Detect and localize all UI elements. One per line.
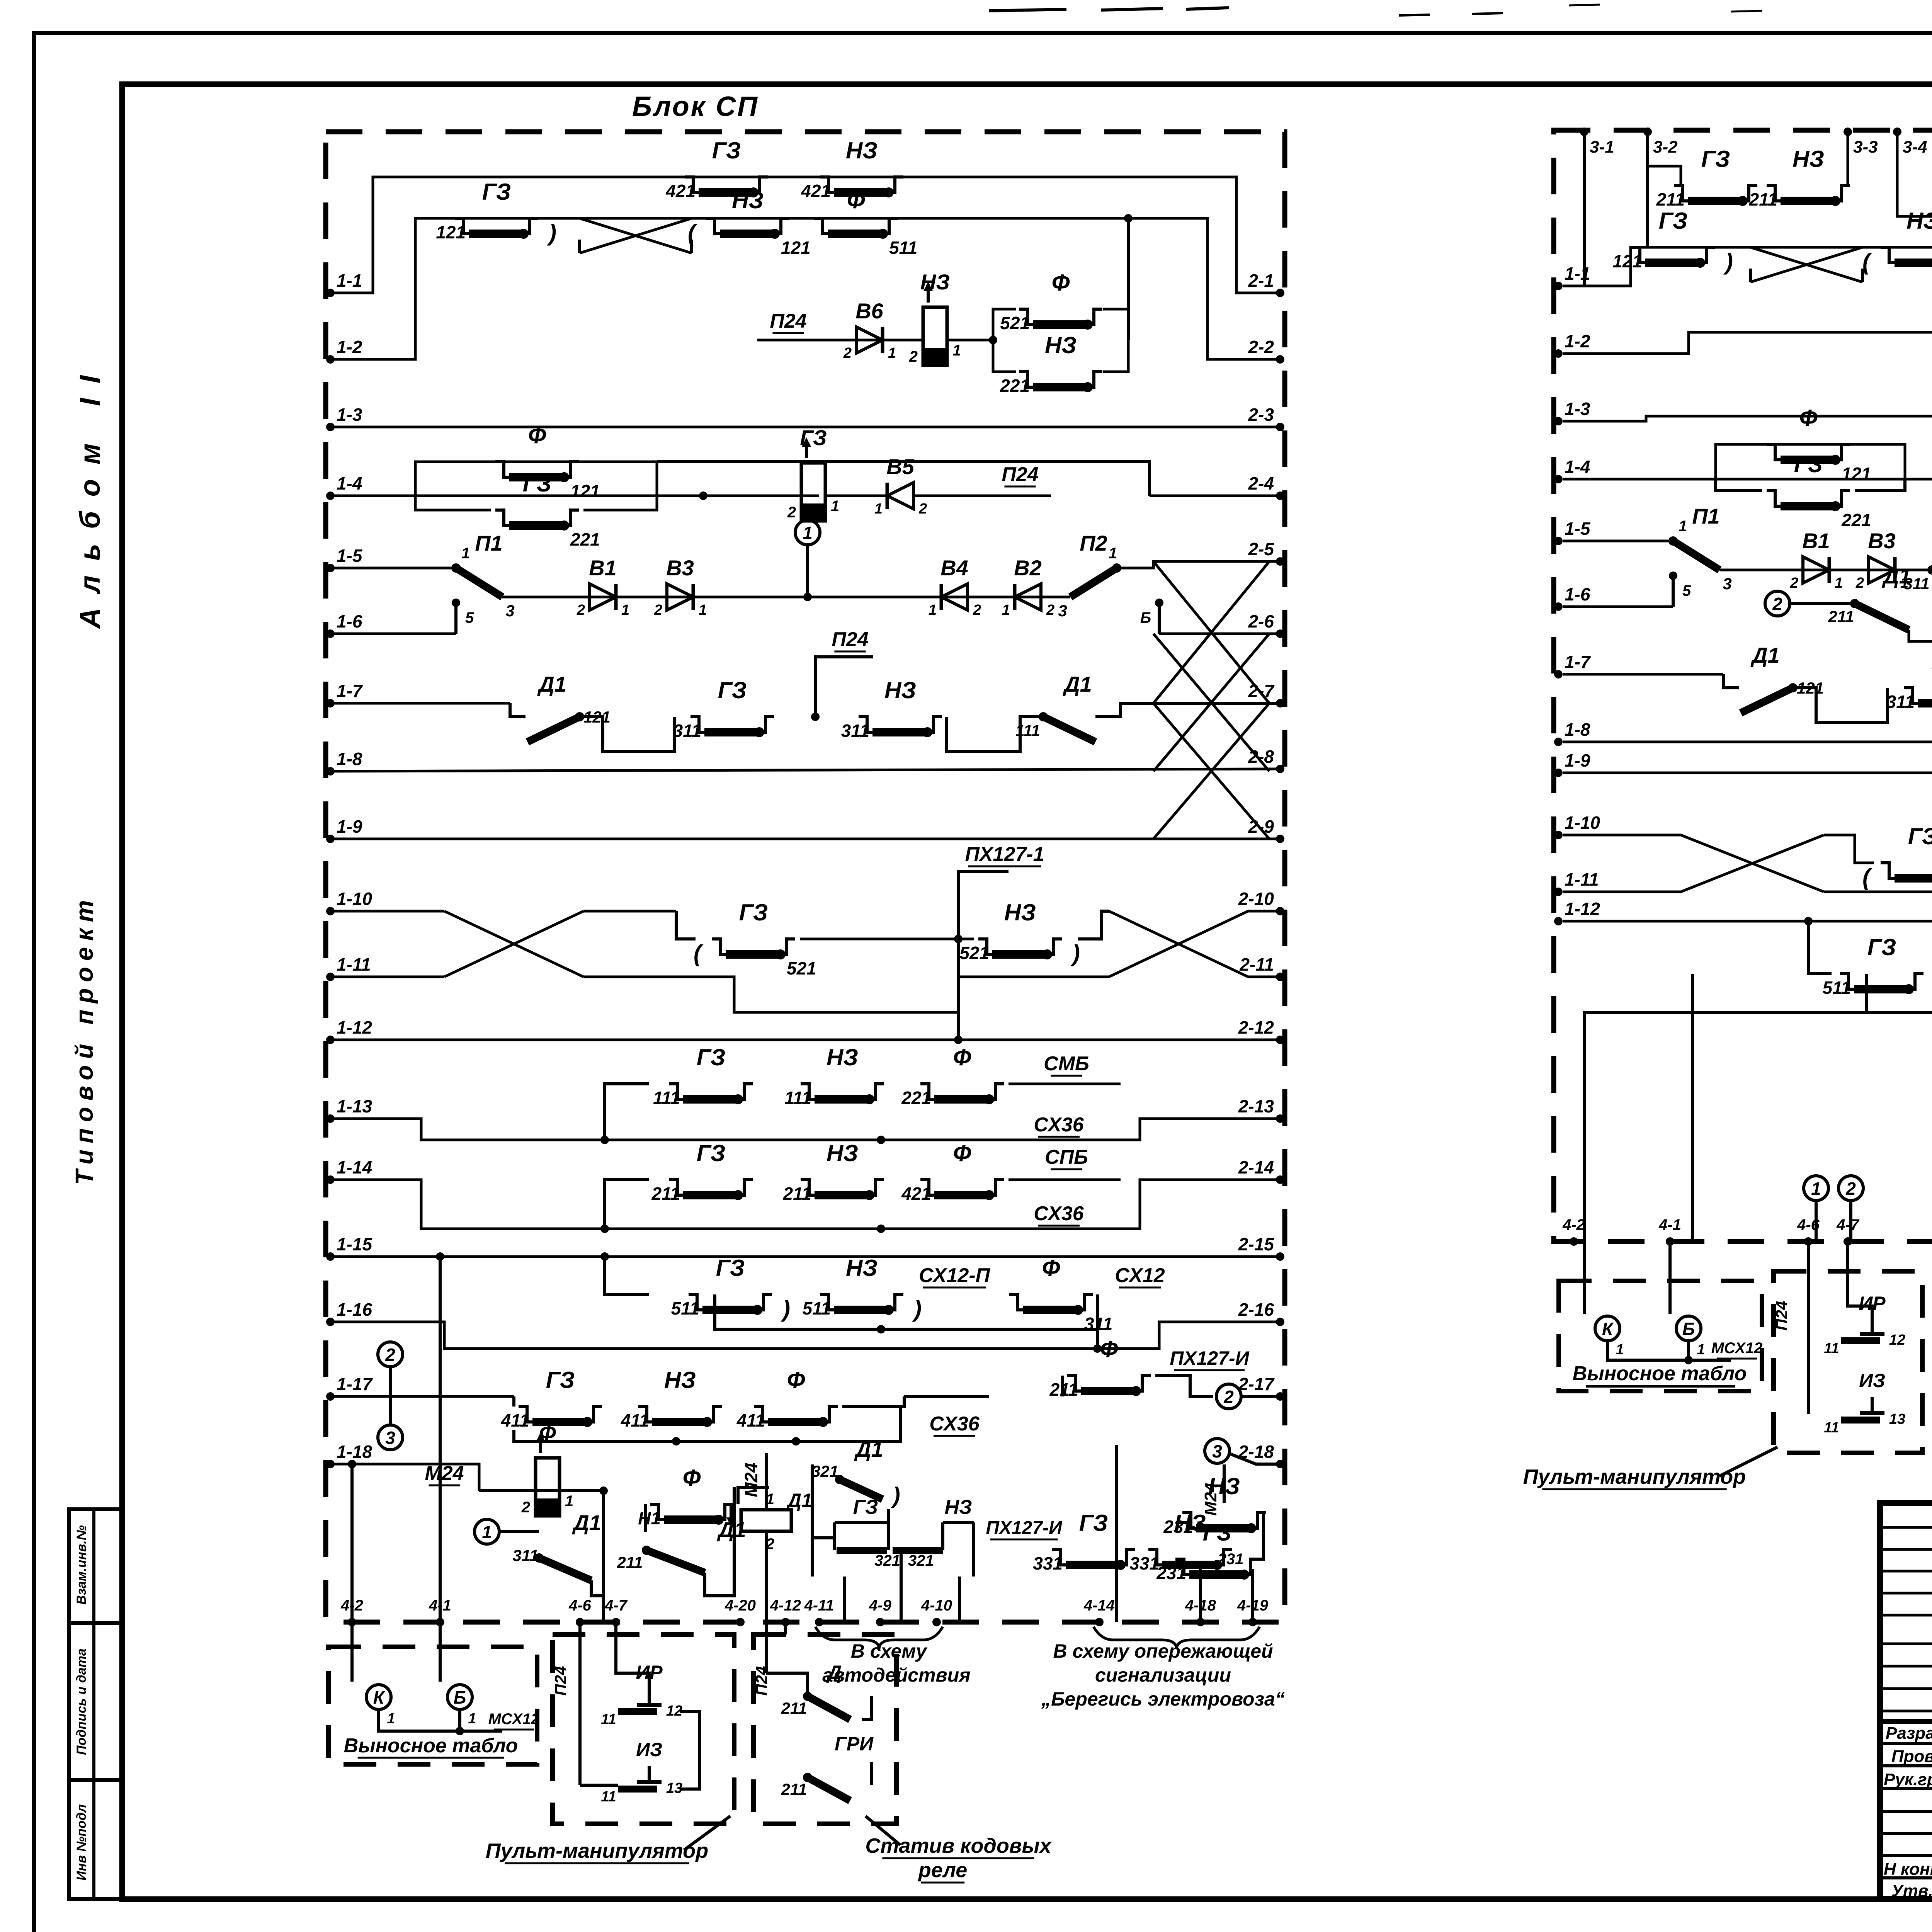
wire 1-10 ГП left bbox=[1563, 834, 1681, 837]
svg-text:4-9: 4-9 bbox=[869, 1597, 892, 1614]
contact Д1 321 bottom СП bbox=[840, 1480, 883, 1499]
svg-text:1: 1 bbox=[1835, 575, 1843, 591]
margin table row line 2 bbox=[69, 1778, 122, 1782]
svg-text:ГЗ: ГЗ bbox=[1701, 146, 1730, 172]
svg-text:2: 2 bbox=[521, 1499, 530, 1516]
junction 1-16 bbox=[1093, 1344, 1102, 1353]
row7 ГП udip1 bbox=[1793, 688, 1888, 723]
svg-text:В схему опережающей: В схему опережающей bbox=[1053, 1640, 1273, 1662]
relay element НЗ box СП row2 bbox=[923, 307, 947, 365]
row14 bracket bbox=[605, 1180, 649, 1229]
svg-text:411: 411 bbox=[736, 1410, 765, 1430]
contact НЗ 111 СП row13 bbox=[801, 1084, 815, 1099]
terminal 1-1 block ГП bbox=[1554, 282, 1563, 290]
svg-text:111: 111 bbox=[1015, 721, 1040, 740]
bottom terminal 4-6 СП bbox=[576, 1618, 584, 1626]
terminal 1-4 block ГП bbox=[1554, 475, 1563, 483]
svg-text:2: 2 bbox=[787, 504, 796, 521]
svg-text:Ф: Ф bbox=[1042, 1255, 1060, 1281]
svg-text:1: 1 bbox=[831, 498, 839, 515]
row17 СХ36 return bbox=[514, 1406, 900, 1441]
diode В1 ГП bbox=[1803, 557, 1829, 583]
wire row10 mid bbox=[583, 910, 676, 913]
contact bars 321/321 bbox=[837, 1547, 887, 1554]
svg-text:2-11: 2-11 bbox=[1239, 954, 1274, 975]
svg-text:Д1: Д1 bbox=[1882, 564, 1911, 588]
svg-text:4-1: 4-1 bbox=[429, 1597, 451, 1614]
svg-text:311: 311 bbox=[1886, 692, 1915, 712]
row15 return line bbox=[715, 1294, 1097, 1329]
svg-text:1-6: 1-6 bbox=[337, 611, 362, 631]
svg-text:2-15: 2-15 bbox=[1238, 1234, 1274, 1254]
wire 1-18 left bbox=[330, 1463, 390, 1466]
wire 3-2 3-3 contact group bbox=[1648, 166, 1681, 185]
Ф Н1 bracket bbox=[738, 1487, 769, 1504]
row14 junction dot bbox=[877, 1225, 885, 1233]
svg-text:1: 1 bbox=[1109, 545, 1117, 562]
contact ГЗ 331 bottom СП bbox=[1052, 1549, 1066, 1565]
svg-text:Пров:: Пров: bbox=[1891, 1747, 1932, 1766]
terminal 2-17 block СП bbox=[1276, 1392, 1284, 1401]
terminal 1-5 block СП bbox=[326, 564, 335, 572]
wire 1-7 ГП left bbox=[1563, 673, 1723, 676]
branch lower ГП row4 bbox=[1716, 479, 1762, 491]
margin table frame bbox=[69, 1509, 122, 1899]
svg-text:3: 3 bbox=[385, 1428, 395, 1448]
svg-text:НЗ: НЗ bbox=[1793, 146, 1824, 172]
svg-text:В4: В4 bbox=[940, 556, 968, 580]
svg-text:1-3: 1-3 bbox=[1565, 399, 1590, 419]
svg-text:511: 511 bbox=[803, 1298, 831, 1318]
ГЗ 231 small frame bbox=[1256, 1513, 1264, 1559]
row13 junction dot bbox=[877, 1136, 885, 1144]
wire 1-4 left bbox=[330, 495, 415, 497]
СХ12 return ГП bbox=[1866, 974, 1932, 1012]
diode В2 СП bbox=[1015, 584, 1041, 610]
svg-text:ГЗ: ГЗ bbox=[1867, 934, 1896, 960]
box Выносное табло СП bbox=[328, 1647, 537, 1764]
diode В6 СП bbox=[856, 327, 883, 353]
contact Ф 511 СП row2 bbox=[814, 218, 828, 234]
wire 2-4 jog bbox=[657, 462, 1150, 496]
svg-text:Д1: Д1 bbox=[1063, 672, 1092, 696]
svg-text:Ф: Ф bbox=[528, 422, 546, 448]
terminal 1-7 block СП bbox=[326, 699, 335, 707]
svg-text:221: 221 bbox=[1000, 376, 1030, 396]
svg-text:421: 421 bbox=[665, 181, 696, 201]
svg-text:4-7: 4-7 bbox=[1836, 1216, 1860, 1233]
row7 П24 riser bbox=[815, 657, 873, 717]
terminal 2-11 block СП bbox=[1276, 973, 1284, 981]
svg-text:СПБ: СПБ bbox=[1045, 1146, 1088, 1168]
svg-text:П24: П24 bbox=[1002, 463, 1038, 486]
svg-text:3-4: 3-4 bbox=[1903, 138, 1927, 156]
svg-text:1: 1 bbox=[461, 545, 470, 562]
contact ГЗ 411 СП row17 bbox=[519, 1406, 532, 1422]
wire row10 ГП mid bbox=[1824, 835, 1874, 863]
circled3 stub bbox=[389, 1396, 392, 1425]
branch frame ГП row4 bbox=[1716, 444, 1905, 479]
svg-text:11: 11 bbox=[1824, 1420, 1839, 1436]
branch lower frame СП row4 bbox=[415, 496, 491, 510]
circled1 link bbox=[499, 1530, 539, 1533]
svg-text:2-13: 2-13 bbox=[1238, 1096, 1274, 1116]
terminal 2-10 block СП bbox=[1276, 907, 1284, 915]
braid cross B right СП bbox=[1153, 634, 1269, 771]
terminal 2-1 block СП bbox=[1276, 289, 1284, 297]
wire row5 middle right bbox=[808, 596, 1070, 599]
wire 1-8 ГП bbox=[1563, 742, 1932, 745]
circled 3 right stub bbox=[1230, 1454, 1280, 1464]
svg-text:НЗ: НЗ bbox=[732, 187, 764, 213]
svg-text:Ф: Ф bbox=[953, 1044, 971, 1070]
box Статив кодовых реле СП bbox=[753, 1634, 896, 1824]
wire 1-12 to 2-12 bbox=[330, 1039, 1280, 1041]
svg-text:1: 1 bbox=[565, 1493, 573, 1510]
svg-text:221: 221 bbox=[901, 1088, 931, 1108]
bottom right verticals bbox=[1199, 1569, 1202, 1622]
circled 1 bottom ГП bbox=[1804, 1176, 1828, 1201]
svg-text:2-5: 2-5 bbox=[1248, 539, 1275, 559]
vertical Б feed ГП bbox=[1668, 1242, 1672, 1314]
wire 1-2 ГП left bbox=[1563, 332, 1932, 354]
vertical К feed ГП bbox=[1583, 1242, 1586, 1314]
braid cross left ГП rows10-11 bbox=[1681, 835, 1824, 892]
svg-text:Выносное табло: Выносное табло bbox=[1573, 1362, 1747, 1385]
svg-text:5: 5 bbox=[1682, 582, 1691, 599]
svg-text:221: 221 bbox=[570, 529, 600, 549]
bottom terminal 4-7 СП bbox=[612, 1618, 620, 1626]
wire 1-5 left bbox=[330, 567, 456, 570]
svg-text:4-12: 4-12 bbox=[770, 1597, 801, 1614]
М24 vertical line bbox=[765, 1453, 768, 1510]
svg-text:211: 211 bbox=[781, 1780, 807, 1798]
М24 right vertical bbox=[1223, 1464, 1226, 1503]
svg-text:Инв №подл: Инв №подл bbox=[74, 1804, 89, 1881]
wire 1-9 to 2-9 bbox=[330, 838, 1280, 840]
pair merge СП row2 bbox=[1103, 309, 1128, 372]
svg-text:2: 2 bbox=[1223, 1387, 1234, 1407]
svg-text:НЗ: НЗ bbox=[1906, 208, 1932, 234]
terminal 2-3 block СП bbox=[1276, 423, 1284, 431]
contact ИР ГП bbox=[1841, 1337, 1880, 1344]
svg-text:Ф: Ф bbox=[1799, 405, 1818, 431]
terminal 2-5 block СП bbox=[1276, 557, 1284, 566]
svg-text:321: 321 bbox=[811, 1462, 838, 1480]
svg-text:411: 411 bbox=[621, 1410, 649, 1430]
contact Ф 121 ГП row4 bbox=[1767, 444, 1781, 460]
contact НЗ 311 СП row7 bbox=[859, 717, 872, 732]
contact ГЗ 521 ГП row10 bbox=[1881, 863, 1895, 878]
svg-text:ГЗ: ГЗ bbox=[546, 1367, 575, 1393]
svg-text:1-8: 1-8 bbox=[1565, 719, 1590, 740]
contact ГЗ 221 СП row4 bbox=[495, 510, 509, 526]
wire 1-1 to 2-1 upper run bbox=[330, 177, 1280, 293]
svg-text:2-3: 2-3 bbox=[1248, 405, 1274, 425]
svg-text:К: К bbox=[373, 1687, 385, 1708]
svg-text:511: 511 bbox=[1823, 978, 1851, 998]
terminal 1-15 block СП bbox=[326, 1252, 335, 1261]
svg-text:ГЗ: ГЗ bbox=[697, 1044, 726, 1070]
svg-text:П24: П24 bbox=[1772, 1301, 1791, 1331]
contact ИР СП bbox=[618, 1708, 657, 1715]
wire 2-4 right seg bbox=[1150, 495, 1280, 497]
svg-text:Утв.: Утв. bbox=[1891, 1881, 1932, 1900]
svg-text:Д1: Д1 bbox=[1750, 643, 1780, 667]
row17 dip bbox=[512, 1396, 515, 1406]
diode В4 СП bbox=[941, 584, 968, 610]
junction 1-15 left bbox=[436, 1252, 444, 1261]
svg-text:„Берегись электровоза“: „Берегись электровоза“ bbox=[1041, 1688, 1285, 1710]
svg-text:1-11: 1-11 bbox=[337, 954, 371, 975]
wire 1-4 mid bbox=[657, 495, 819, 497]
wire 2-17 seg bbox=[1241, 1395, 1280, 1398]
relay element ГЗ box СП row4 bbox=[801, 463, 825, 521]
svg-text:СХ36: СХ36 bbox=[1034, 1114, 1084, 1136]
contact Ф 121 СП row4 bbox=[495, 462, 509, 477]
cluster verticals to terminals bbox=[843, 1577, 846, 1622]
svg-text:4-7: 4-7 bbox=[604, 1597, 628, 1614]
svg-text:1: 1 bbox=[1002, 602, 1010, 618]
row12 ГП bracket bbox=[1808, 921, 1832, 974]
wire 1-6 ГП left bbox=[1563, 605, 1673, 608]
svg-text:В1: В1 bbox=[589, 556, 617, 580]
svg-text:13: 13 bbox=[1889, 1411, 1905, 1427]
contact Д1 211 bottom СП bbox=[646, 1550, 705, 1573]
svg-text:511: 511 bbox=[671, 1298, 699, 1318]
terminal 1-13 block СП bbox=[326, 1114, 335, 1123]
Пульт feeds bbox=[578, 1622, 582, 1785]
svg-text:Пульт-манипулятор: Пульт-манипулятор bbox=[486, 1839, 708, 1862]
contact НЗ 511 СП row15 bbox=[820, 1294, 834, 1310]
svg-text:автодействия: автодействия bbox=[822, 1664, 970, 1686]
margin table row line 1 bbox=[69, 1621, 122, 1625]
braid cross right СП rows10-11 bbox=[1109, 911, 1248, 977]
svg-text:12: 12 bbox=[1889, 1332, 1905, 1348]
vertical 1-18 down bbox=[350, 1464, 354, 1622]
svg-text:1-12: 1-12 bbox=[337, 1017, 372, 1037]
svg-text:Ф: Ф bbox=[1052, 270, 1070, 296]
svg-text:Блок СП: Блок СП bbox=[632, 91, 759, 122]
block ГП dashed border bbox=[1554, 130, 1932, 1242]
wire 1-13 main bbox=[330, 1119, 1280, 1140]
row10 dip frame bbox=[676, 911, 696, 939]
contact Ф Н1 bottom СП bbox=[650, 1504, 664, 1520]
svg-text:1: 1 bbox=[929, 602, 937, 618]
row17 right link bbox=[1155, 1376, 1213, 1396]
svg-text:Б: Б bbox=[1140, 609, 1151, 626]
svg-text:311: 311 bbox=[513, 1546, 539, 1565]
contact Д1 121 СП row7 bbox=[527, 717, 580, 742]
contact ГЗ 111 СП row13 bbox=[669, 1084, 683, 1099]
svg-text:ГРИ: ГРИ bbox=[835, 1733, 874, 1755]
terminal 1-11 block ГП bbox=[1554, 888, 1563, 896]
svg-text:121: 121 bbox=[1842, 464, 1871, 484]
contact НЗ 331 bottom СП bbox=[1148, 1549, 1162, 1565]
svg-text:ГЗ: ГЗ bbox=[718, 677, 747, 703]
Д1 311 down link bbox=[591, 1580, 604, 1596]
contact Д1 311 bottom СП bbox=[539, 1558, 591, 1580]
svg-text:121: 121 bbox=[436, 222, 466, 242]
contact Ф 211 СП row17 right bbox=[1067, 1376, 1081, 1391]
wire row5 middle bbox=[502, 596, 808, 599]
svg-text:НЗ: НЗ bbox=[1004, 900, 1036, 925]
svg-text:1-3: 1-3 bbox=[337, 405, 362, 425]
top terminal 3-2 ГП bbox=[1643, 128, 1652, 136]
bottom terminal 4-2 ГП bbox=[1570, 1237, 1578, 1246]
svg-text:4-2: 4-2 bbox=[340, 1597, 363, 1614]
wire 2-5 right seg bbox=[1117, 561, 1280, 568]
svg-text:Ф: Ф bbox=[683, 1465, 701, 1491]
svg-text:Н контр.: Н контр. bbox=[1884, 1860, 1932, 1879]
svg-text:НЗ: НЗ bbox=[846, 138, 878, 163]
crossover symbol ГП row1 bbox=[1750, 247, 1862, 282]
contact Ф 311 СП row15 bbox=[1009, 1294, 1023, 1310]
svg-text:2: 2 bbox=[1046, 602, 1054, 618]
svg-text:1: 1 bbox=[1697, 1342, 1705, 1358]
terminal 2-14 block СП bbox=[1276, 1175, 1284, 1184]
contact НЗ 231 bottom right СП bbox=[1182, 1513, 1196, 1528]
svg-text:1-15: 1-15 bbox=[337, 1234, 372, 1254]
row14 upper tail bbox=[1009, 1179, 1121, 1181]
terminal 1-18 block СП bbox=[326, 1460, 335, 1468]
svg-text:3-1: 3-1 bbox=[1590, 138, 1614, 156]
contact ИЗ СП bbox=[618, 1786, 657, 1793]
wire subrow ГП bbox=[1909, 630, 1932, 641]
svg-text:ГЗ: ГЗ bbox=[712, 138, 741, 163]
К Б link lines bbox=[379, 1709, 502, 1731]
contact НЗ 121 ГП row1 bbox=[1881, 247, 1895, 263]
wire 1-18 across bbox=[390, 1464, 479, 1491]
margin table divider vertical bbox=[92, 1509, 95, 1899]
crossover symbol СП row2 bbox=[580, 218, 692, 253]
wire 2-6 right seg bbox=[1159, 633, 1280, 635]
svg-text:В3: В3 bbox=[666, 556, 694, 580]
bottom terminal 4-11 СП bbox=[815, 1618, 823, 1626]
svg-text:3: 3 bbox=[1723, 575, 1731, 593]
title block left table rows bbox=[1880, 1526, 1932, 1529]
svg-text:НЗ: НЗ bbox=[920, 270, 950, 294]
row15 return hook bbox=[1096, 1294, 1099, 1329]
svg-text:1-4: 1-4 bbox=[337, 473, 362, 493]
terminal 1-3 block СП bbox=[326, 423, 335, 431]
svg-text:1-16: 1-16 bbox=[337, 1299, 372, 1320]
svg-text:1: 1 bbox=[952, 342, 961, 359]
svg-text:СХ36: СХ36 bbox=[1034, 1202, 1084, 1225]
svg-text:321: 321 bbox=[874, 1552, 900, 1569]
wire 1-9 ГП bbox=[1563, 773, 1932, 799]
terminal 1-4 block СП bbox=[326, 492, 335, 500]
row16 link up bbox=[1096, 1329, 1099, 1349]
contact НЗ 211 top ГП bbox=[1767, 185, 1781, 201]
svg-text:3: 3 bbox=[505, 602, 514, 620]
svg-text:МСХ12: МСХ12 bbox=[1711, 1340, 1763, 1357]
braid cross C right СП bbox=[1153, 703, 1269, 839]
svg-text:Б: Б bbox=[1682, 1319, 1695, 1339]
svg-text:СМБ: СМБ bbox=[1044, 1053, 1089, 1075]
svg-text:СХ36: СХ36 bbox=[929, 1413, 980, 1435]
contact ГЗ 521 СП row10 bbox=[712, 939, 726, 954]
svg-text:1-11: 1-11 bbox=[1565, 869, 1599, 889]
svg-text:П2: П2 bbox=[1080, 531, 1107, 555]
svg-text:1-7: 1-7 bbox=[337, 681, 363, 701]
svg-text:11: 11 bbox=[1824, 1340, 1839, 1357]
svg-text:521: 521 bbox=[1000, 313, 1030, 333]
svg-text:1: 1 bbox=[888, 345, 896, 361]
brace автодействия СП bbox=[815, 1627, 943, 1649]
svg-text:М24: М24 bbox=[425, 1462, 464, 1485]
contact ГЗ 211 top ГП bbox=[1674, 185, 1688, 201]
svg-text:211: 211 bbox=[1828, 607, 1854, 626]
svg-text:1-14: 1-14 bbox=[337, 1157, 372, 1177]
terminal 1-1 block СП bbox=[326, 289, 335, 297]
svg-text:1-12: 1-12 bbox=[1565, 899, 1600, 919]
contact ГЗ 211 СП row14 bbox=[669, 1180, 683, 1195]
wire 1-10 left bbox=[330, 910, 444, 913]
svg-text:1-13: 1-13 bbox=[337, 1096, 372, 1116]
svg-text:ГЗ: ГЗ bbox=[1659, 208, 1688, 234]
svg-text:3-2: 3-2 bbox=[1653, 138, 1678, 156]
svg-text:2-10: 2-10 bbox=[1238, 889, 1274, 909]
row10 dip frame right bbox=[1078, 911, 1109, 939]
terminal 2-2 block СП bbox=[1276, 355, 1284, 364]
contact ГЗ 121 ГП row1 bbox=[1631, 247, 1645, 263]
circled 1 bottom СП bbox=[474, 1519, 499, 1544]
diode В5 СП bbox=[887, 483, 913, 509]
terminal 1-10 block ГП bbox=[1554, 831, 1563, 839]
braid cross A right СП bbox=[1153, 561, 1269, 703]
svg-text:НЗ: НЗ bbox=[945, 1496, 972, 1519]
svg-text:1: 1 bbox=[1811, 1179, 1821, 1199]
svg-text:П24: П24 bbox=[551, 1666, 570, 1696]
svg-text:2: 2 bbox=[1845, 1179, 1856, 1199]
svg-text:2: 2 bbox=[1790, 575, 1798, 591]
contact Ф 221 СП row13 bbox=[920, 1084, 934, 1099]
circled 2 right СП bbox=[1216, 1384, 1241, 1409]
П2 pin5 stub bbox=[1158, 603, 1161, 634]
svg-text:Выносное табло: Выносное табло bbox=[344, 1735, 518, 1757]
contact ГЗ 221 ГП row4 bbox=[1767, 491, 1781, 506]
circled bottom stubs ГП bbox=[1815, 1201, 1818, 1242]
svg-text:ГЗ: ГЗ bbox=[800, 425, 827, 450]
terminal 1-2 block ГП bbox=[1554, 349, 1563, 358]
terminal 2-6 block СП bbox=[1276, 629, 1284, 638]
bottom terminal 4-1 ГП bbox=[1666, 1237, 1674, 1246]
bottom terminal 4-14 СП bbox=[1095, 1618, 1104, 1626]
block СП dashed border bbox=[326, 132, 1285, 1622]
svg-text:12: 12 bbox=[666, 1703, 682, 1719]
wire 1-8 to 2-8 bbox=[330, 769, 1280, 771]
svg-text:1-9: 1-9 bbox=[337, 816, 362, 837]
junction dot СП row2a bbox=[989, 336, 997, 344]
contact Ф 521 СП pair bbox=[1019, 309, 1033, 325]
svg-text:Пульт-манипулятор: Пульт-манипулятор bbox=[1523, 1465, 1746, 1488]
svg-text:211: 211 bbox=[781, 1699, 807, 1717]
svg-text:1: 1 bbox=[468, 1711, 476, 1727]
svg-text:2-6: 2-6 bbox=[1248, 611, 1274, 631]
svg-text:СХ12: СХ12 bbox=[1115, 1264, 1165, 1287]
svg-text:Д1: Д1 bbox=[786, 1490, 812, 1511]
svg-text:4-1: 4-1 bbox=[1658, 1216, 1681, 1233]
svg-text:1-9: 1-9 bbox=[1565, 750, 1590, 770]
wire 3-1 down bbox=[1583, 132, 1586, 286]
svg-text:НЗ: НЗ bbox=[1045, 332, 1077, 358]
contact НЗ 521 СП row10 bbox=[978, 939, 992, 954]
svg-text:В5: В5 bbox=[886, 454, 914, 479]
svg-text:231: 231 bbox=[1163, 1517, 1193, 1537]
П1 pin5 stub bbox=[454, 603, 457, 634]
braid cross left СП rows10-11 bbox=[444, 911, 583, 977]
